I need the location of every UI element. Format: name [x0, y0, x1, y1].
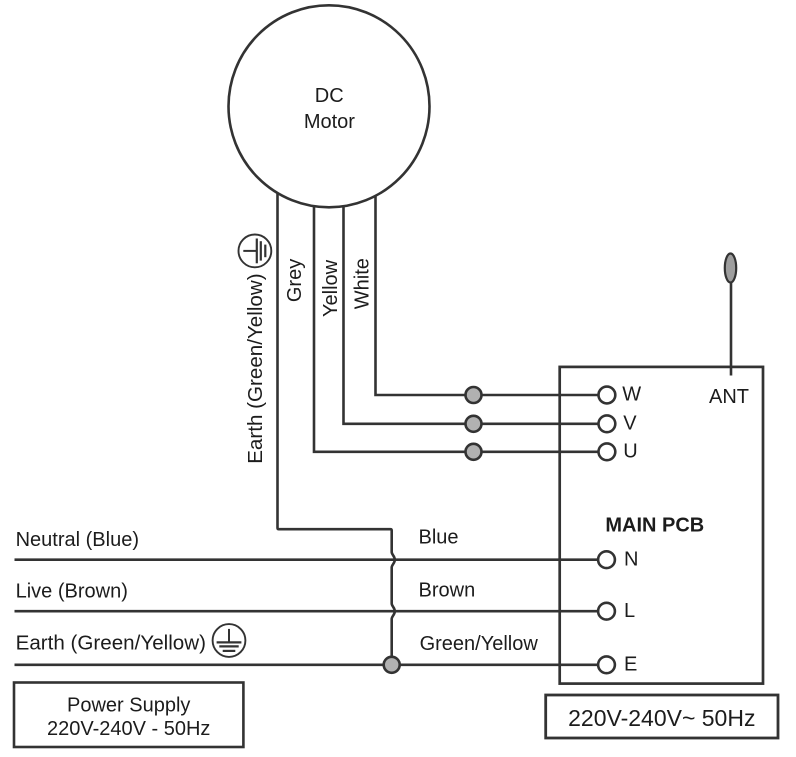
terminal E — [598, 656, 615, 673]
svg-text:Neutral (Blue): Neutral (Blue) — [16, 529, 139, 551]
svg-text:DC: DC — [315, 85, 344, 107]
earth symbol at motor (rotated) — [239, 235, 272, 268]
antenna ANT tip — [725, 254, 736, 283]
terminal U — [599, 443, 616, 460]
svg-text:Grey: Grey — [284, 259, 306, 302]
terminal W — [599, 387, 616, 404]
svg-text:Green/Yellow: Green/Yellow — [420, 633, 539, 655]
wire: Neutral power line — [15, 558, 599, 561]
svg-text:Motor: Motor — [304, 111, 355, 133]
svg-text:V: V — [623, 412, 637, 434]
wire: motor White lead to terminal W — [376, 193, 599, 396]
svg-text:N: N — [624, 548, 638, 570]
svg-text:L: L — [624, 600, 635, 622]
wire: Live power line — [15, 610, 599, 613]
earth symbol at Earth power label — [213, 624, 246, 657]
svg-text:220V-240V~ 50Hz: 220V-240V~ 50Hz — [568, 705, 755, 731]
terminal L — [598, 603, 615, 620]
MAIN PCB box — [560, 367, 763, 684]
wire: motor Yellow lead to terminal V — [344, 203, 599, 424]
svg-text:Earth (Green/Yellow): Earth (Green/Yellow) — [244, 273, 267, 463]
svg-text:220V-240V - 50Hz: 220V-240V - 50Hz — [47, 718, 210, 740]
svg-text:Earth (Green/Yellow): Earth (Green/Yellow) — [16, 632, 206, 655]
wire: motor earth lead (Green/Yellow) with hops over Neutral and Live — [278, 189, 395, 665]
svg-text:U: U — [623, 440, 637, 462]
mains rating box — [546, 695, 778, 738]
svg-text:W: W — [622, 384, 641, 406]
power supply box — [14, 683, 243, 748]
svg-text:E: E — [624, 654, 637, 676]
svg-text:Blue: Blue — [419, 527, 459, 549]
svg-text:White: White — [352, 258, 374, 309]
antenna ANT lead — [730, 283, 733, 376]
connector dot on U wire — [466, 444, 482, 460]
connector dot on V wire — [466, 416, 482, 432]
svg-text:Brown: Brown — [419, 580, 476, 602]
wire: motor Grey lead to terminal U — [314, 202, 598, 452]
svg-text:ANT: ANT — [709, 386, 749, 408]
svg-text:Yellow: Yellow — [320, 259, 342, 317]
terminal V — [599, 415, 616, 432]
wire: Earth power line — [15, 663, 599, 666]
junction: earth wire to Earth power line — [384, 657, 400, 673]
svg-text:Live (Brown): Live (Brown) — [16, 581, 128, 603]
motor M1 circle — [229, 5, 430, 207]
connector dot on W wire — [466, 387, 482, 403]
terminal N — [598, 551, 615, 568]
svg-text:MAIN PCB: MAIN PCB — [605, 515, 704, 537]
svg-text:Power Supply: Power Supply — [67, 695, 190, 717]
